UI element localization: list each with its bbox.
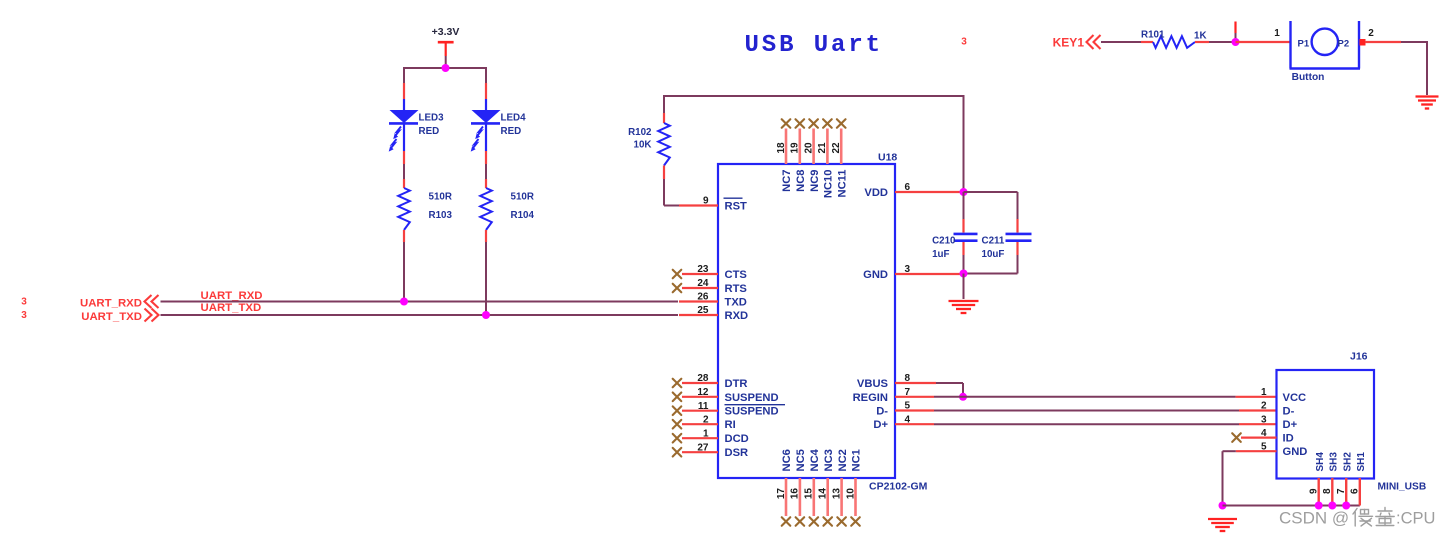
pin 25 RXD (679, 305, 748, 322)
svg-text:LED3: LED3 (419, 113, 445, 124)
svg-text:KEY1: KEY1 (1053, 36, 1085, 50)
svg-text:4: 4 (905, 414, 911, 425)
wire VDD net vertical (963, 95, 965, 192)
svg-text:21: 21 (817, 142, 828, 154)
wire net UART_RXD (161, 301, 679, 303)
pin 20 NC9 (803, 119, 820, 192)
svg-text:10K: 10K (634, 140, 652, 151)
IC U18 CP2102-GM body (718, 164, 895, 478)
pin 22 NC11 (831, 119, 848, 197)
resistor R103 (398, 179, 452, 242)
pin 11 SUSPEND (673, 401, 779, 418)
svg-text:SH2: SH2 (1342, 452, 1353, 472)
svg-text:20: 20 (803, 142, 814, 154)
svg-text:3: 3 (21, 297, 27, 308)
svg-text:TXD: TXD (725, 297, 747, 309)
svg-text:NC3: NC3 (823, 449, 835, 471)
svg-text:D-: D- (876, 406, 888, 418)
pin 13 NC2 (831, 449, 848, 526)
svg-text:3: 3 (1261, 414, 1267, 425)
svg-text:ID: ID (1283, 433, 1294, 445)
svg-text:USB Uart: USB Uart (745, 32, 883, 59)
svg-text:RTS: RTS (725, 283, 748, 295)
pin 5 GND (J16) (1261, 441, 1307, 458)
wire R102 top to VDD net (663, 95, 665, 113)
switch SW Button (1290, 21, 1366, 83)
svg-text:SUSPEND: SUSPEND (725, 392, 779, 404)
svg-text:27: 27 (697, 442, 709, 453)
svg-text:UART_TXD: UART_TXD (201, 302, 262, 314)
svg-text:RI: RI (725, 419, 736, 431)
svg-text:7: 7 (1336, 488, 1347, 494)
svg-text:UART_TXD: UART_TXD (81, 311, 142, 323)
wire button pin2 (1365, 41, 1401, 43)
pin 2 D- (J16) (1261, 401, 1295, 418)
ground (J16) (1208, 519, 1237, 531)
junction UART_TXD / LED4 (482, 311, 490, 319)
wire GND pin to ground (963, 274, 965, 300)
no-connect ID pin (1232, 433, 1241, 442)
wire R101 to button (1209, 41, 1236, 43)
svg-text:17: 17 (776, 488, 787, 500)
svg-text:NC11: NC11 (836, 170, 848, 198)
pin 19 NC8 (790, 119, 807, 192)
wire REGIN net to J16 VCC (934, 396, 1236, 398)
svg-text:NC10: NC10 (823, 170, 835, 199)
resistor R102 (628, 113, 670, 179)
svg-text:NC5: NC5 (795, 449, 807, 471)
resistor R101 (1141, 30, 1209, 48)
svg-text:26: 26 (697, 292, 709, 303)
svg-text:24: 24 (697, 278, 709, 289)
svg-text:9: 9 (703, 196, 709, 207)
pin 17 NC6 (776, 449, 793, 526)
junction SH2 (1342, 502, 1350, 510)
junction VDD / C210 (960, 188, 968, 196)
pin 2 RI (673, 414, 736, 431)
wire C210 bottom to GND net (963, 255, 965, 274)
svg-text:LED4: LED4 (501, 113, 527, 124)
capacitor C211 (982, 219, 1032, 260)
svg-text:1: 1 (1261, 387, 1267, 398)
LED LED4 (471, 110, 526, 152)
pin 14 NC3 (818, 449, 835, 526)
svg-text:R103: R103 (429, 210, 453, 221)
svg-text:SH4: SH4 (1315, 452, 1326, 472)
wire R103 top (403, 164, 405, 179)
wire LED3 column to RXD net (403, 242, 405, 302)
svg-text:R104: R104 (511, 210, 535, 221)
port UART_TXD (21, 309, 158, 324)
junction SH3 (1328, 502, 1336, 510)
junction +3.3V rail (442, 64, 450, 72)
pin 21 NC10 (817, 119, 834, 198)
svg-text:NC9: NC9 (809, 170, 821, 192)
svg-text:REGIN: REGIN (853, 392, 888, 404)
wire D- net to J16 (934, 410, 1239, 412)
junction GND/shield (1219, 502, 1227, 510)
port UART_RXD (21, 295, 158, 310)
svg-text:5: 5 (905, 401, 911, 412)
junction VBUS/REGIN (959, 393, 967, 401)
svg-text:DTR: DTR (725, 378, 748, 390)
svg-text:VCC: VCC (1283, 392, 1307, 404)
svg-text:J16: J16 (1350, 351, 1368, 363)
pin 5 D- (876, 401, 934, 418)
svg-text:C211: C211 (982, 236, 1005, 247)
wire VDD to C210 top (963, 192, 965, 219)
wire/pins of LED4 (485, 83, 487, 99)
wire stub up at junction (1234, 22, 1236, 34)
svg-text:MINI_USB: MINI_USB (1378, 482, 1427, 493)
svg-text:1: 1 (1274, 28, 1280, 39)
svg-text:8: 8 (905, 373, 911, 384)
ground (button) (1416, 97, 1439, 109)
junction SH4 (1315, 502, 1323, 510)
pin 8 VBUS (857, 373, 936, 390)
svg-text:U18: U18 (878, 152, 897, 164)
svg-text:3: 3 (21, 310, 27, 321)
svg-text:GND: GND (1283, 446, 1308, 458)
svg-text:2: 2 (1368, 28, 1374, 39)
pin 3 D+ (J16) (1261, 414, 1298, 431)
svg-text:18: 18 (776, 142, 787, 154)
power +3.3V (432, 26, 460, 66)
wire right LED column upper (485, 67, 487, 83)
svg-text:DCD: DCD (725, 433, 749, 445)
svg-text:D+: D+ (1283, 419, 1298, 431)
svg-text:10uF: 10uF (982, 249, 1005, 260)
svg-text:23: 23 (697, 264, 709, 275)
junction UART_RXD / LED3 (400, 298, 408, 306)
svg-text:RXD: RXD (725, 310, 749, 322)
svg-text:RED: RED (419, 126, 440, 137)
pin 4 D+ (873, 414, 934, 431)
svg-text:GND: GND (863, 269, 888, 281)
svg-text:510R: 510R (511, 192, 534, 203)
pin 12 SUSPEND (673, 387, 785, 405)
svg-text:10: 10 (845, 488, 856, 500)
wire VDD to C211 (964, 191, 1018, 193)
svg-text:CSDN @: CSDN @ (1279, 509, 1349, 528)
wire R102 bottom to RST (663, 179, 665, 206)
svg-text:R102: R102 (628, 127, 652, 138)
LED LED3 (389, 110, 444, 152)
wire +3.3V rail (403, 67, 487, 69)
svg-text:VBUS: VBUS (857, 378, 889, 390)
wire R104 top (485, 164, 487, 179)
svg-text:NC2: NC2 (837, 449, 849, 471)
svg-text:9: 9 (1309, 488, 1320, 494)
wire LED4 column to TXD net (485, 242, 487, 315)
pin 7 SH2 (J16 shield) (1336, 452, 1353, 506)
svg-text:CTS: CTS (725, 269, 748, 281)
junction GND / C210 (960, 270, 968, 278)
svg-text:12: 12 (697, 387, 709, 398)
pin 10 NC1 (845, 449, 862, 526)
svg-text:16: 16 (790, 488, 801, 500)
pin 27 DSR (673, 442, 748, 459)
svg-text:19: 19 (790, 142, 801, 154)
pin 3 GND (863, 264, 963, 281)
wire D+ net to J16 (934, 423, 1239, 425)
wire C211 bottom to GND net (1017, 255, 1019, 274)
wire to ground (button) (1426, 41, 1428, 95)
wire net UART_TXD (161, 314, 679, 316)
wire left LED column upper (403, 67, 405, 83)
wire/pins of LED3 (403, 83, 405, 99)
pin 1 VCC (J16) (1261, 387, 1306, 404)
svg-text:NC6: NC6 (781, 449, 793, 471)
pin 4 ID (J16) (1261, 428, 1294, 445)
svg-text:NC1: NC1 (851, 449, 863, 471)
svg-text:P2: P2 (1338, 39, 1350, 50)
svg-text:1: 1 (703, 428, 709, 439)
pin 1 DCD (673, 428, 749, 445)
svg-text:NC4: NC4 (809, 448, 821, 471)
svg-text:RST: RST (725, 201, 748, 213)
wire shield bus (1223, 505, 1360, 507)
svg-text:D-: D- (1283, 406, 1295, 418)
svg-text:VDD: VDD (864, 187, 888, 199)
svg-text:SH1: SH1 (1356, 452, 1367, 472)
pin 9 SH4 (J16 shield) (1309, 452, 1326, 506)
svg-text:14: 14 (818, 488, 829, 500)
wire junction to button pin1 (1236, 41, 1291, 43)
svg-text:NC8: NC8 (795, 170, 807, 192)
svg-text:6: 6 (905, 182, 911, 193)
svg-text:7: 7 (905, 387, 911, 398)
watermark CSDN (1279, 508, 1435, 528)
svg-text:DSR: DSR (725, 447, 749, 459)
wire KEY1 to R101 (1101, 41, 1141, 43)
svg-text:15: 15 (804, 488, 815, 500)
svg-text:8: 8 (1322, 488, 1333, 494)
svg-text:6: 6 (1350, 488, 1361, 494)
svg-text:1uF: 1uF (932, 249, 949, 260)
wire GND down (1222, 451, 1224, 505)
svg-text:UART_RXD: UART_RXD (80, 298, 142, 310)
pin 8 SH3 (J16 shield) (1322, 452, 1339, 506)
pin 6 SH1 (J16 shield) (1350, 452, 1367, 506)
svg-text:1K: 1K (1194, 31, 1207, 42)
pin 9 RST (679, 196, 747, 213)
svg-text:28: 28 (697, 373, 709, 384)
port KEY1 (1053, 35, 1101, 50)
svg-text:22: 22 (831, 142, 842, 154)
resistor R104 (480, 179, 534, 242)
svg-text:11: 11 (698, 401, 709, 412)
svg-text:3: 3 (961, 37, 967, 48)
svg-text:2: 2 (703, 414, 709, 425)
svg-text:UART_RXD: UART_RXD (201, 290, 263, 302)
svg-text:13: 13 (831, 488, 842, 500)
svg-text:RED: RED (501, 126, 522, 137)
connector J16 body (1277, 370, 1375, 479)
capacitor C210 (932, 219, 977, 260)
wire VBUS pin8 (936, 382, 963, 384)
pin 28 DTR (673, 373, 748, 390)
wire J16 GND pin (1236, 450, 1277, 452)
svg-text:3: 3 (905, 264, 911, 275)
svg-text:D+: D+ (873, 419, 888, 431)
svg-text::CPU: :CPU (1396, 510, 1435, 528)
pin 6 VDD (864, 182, 963, 199)
pin 18 NC7 (776, 119, 793, 192)
pin 7 REGIN (853, 387, 934, 404)
svg-text:SUSPEND: SUSPEND (725, 406, 779, 418)
svg-text:Button: Button (1292, 72, 1325, 83)
svg-text:SH3: SH3 (1329, 452, 1340, 472)
pin 23 CTS (673, 264, 748, 281)
pin 26 TXD (679, 292, 747, 309)
svg-text:NC7: NC7 (781, 170, 793, 192)
pin 24 RTS (673, 278, 748, 295)
junction KEY1 node (1232, 38, 1240, 46)
svg-text:CP2102-GM: CP2102-GM (869, 481, 928, 493)
svg-text:C210: C210 (932, 236, 956, 247)
pin 15 NC4 (804, 448, 821, 525)
svg-text:P1: P1 (1298, 39, 1310, 50)
ground (U18 GND) (949, 301, 979, 313)
svg-text:+3.3V: +3.3V (432, 26, 460, 38)
svg-text:2: 2 (1261, 401, 1267, 412)
svg-text:R101: R101 (1141, 30, 1165, 41)
svg-text:510R: 510R (429, 192, 452, 203)
svg-text:25: 25 (697, 305, 709, 316)
pin 16 NC5 (790, 449, 807, 526)
